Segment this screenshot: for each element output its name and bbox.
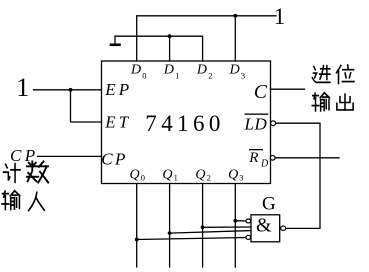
svg-text:C: C: [254, 82, 268, 103]
svg-text:&: &: [256, 215, 272, 237]
svg-text:74160: 74160: [145, 111, 225, 136]
svg-text:Q: Q: [162, 168, 172, 183]
svg-text:D: D: [229, 63, 240, 78]
svg-text:3: 3: [239, 173, 243, 183]
svg-text:2: 2: [208, 71, 212, 81]
svg-text:3: 3: [241, 71, 245, 81]
svg-text:Q: Q: [195, 168, 205, 183]
svg-text:D: D: [260, 159, 269, 170]
svg-text:1: 1: [174, 173, 178, 183]
svg-text:1: 1: [175, 71, 179, 81]
svg-text:1: 1: [274, 4, 286, 29]
svg-text:D: D: [196, 63, 207, 78]
svg-text:ET: ET: [104, 112, 131, 131]
svg-text:D: D: [163, 63, 174, 78]
svg-text:R: R: [248, 150, 258, 166]
svg-text:Q: Q: [228, 168, 238, 183]
svg-text:D: D: [130, 63, 141, 78]
svg-text:CP: CP: [101, 150, 128, 169]
svg-text:Q: Q: [130, 168, 140, 183]
svg-text:0: 0: [141, 173, 145, 183]
svg-text:G: G: [262, 194, 276, 215]
svg-text:0: 0: [142, 71, 146, 81]
svg-text:CP: CP: [10, 146, 39, 165]
svg-text:EP: EP: [104, 80, 132, 99]
svg-text:2: 2: [207, 173, 211, 183]
svg-text:1: 1: [16, 73, 29, 102]
svg-text:LD: LD: [244, 115, 268, 134]
